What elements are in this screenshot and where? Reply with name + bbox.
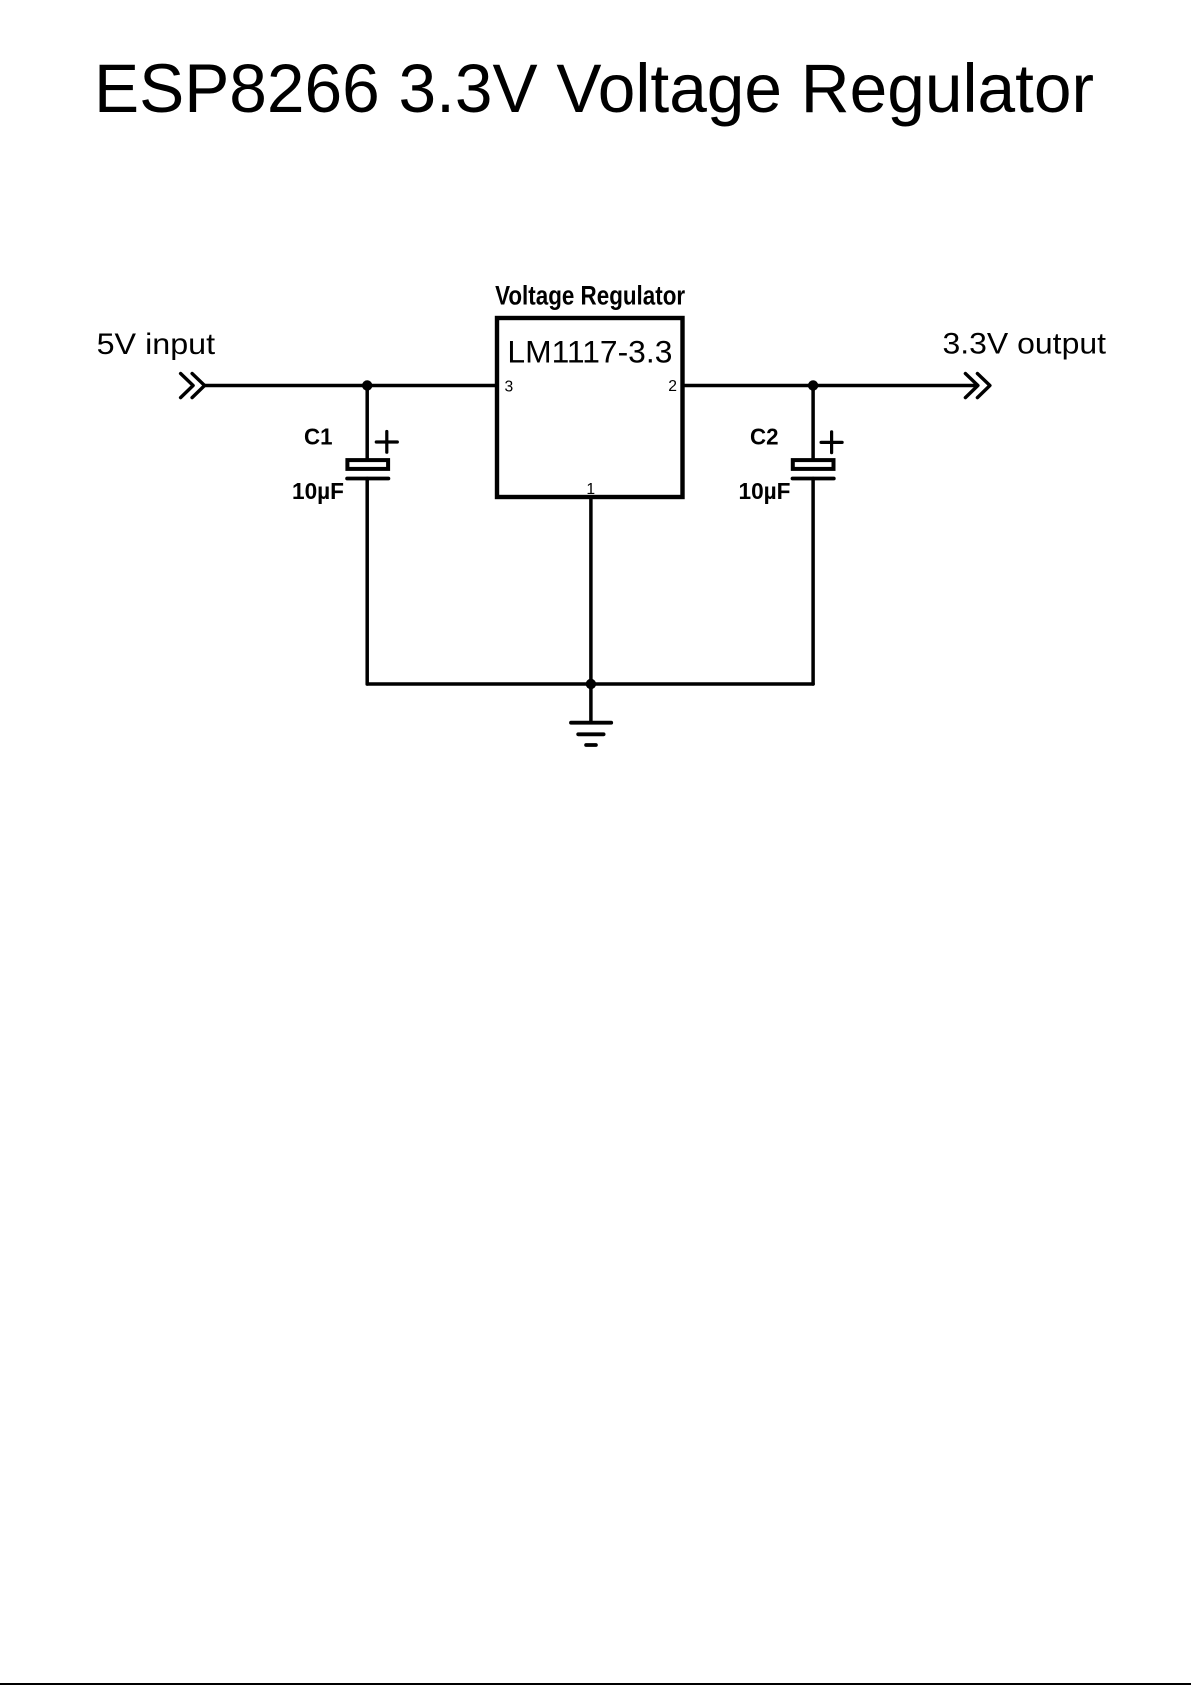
svg-text:3.3V output: 3.3V output [943,328,1107,361]
svg-text:10µF: 10µF [292,478,344,504]
svg-text:Voltage Regulator: Voltage Regulator [495,281,685,311]
svg-text:1: 1 [586,481,595,498]
svg-text:ESP8266 3.3V Voltage Regulator: ESP8266 3.3V Voltage Regulator [94,51,1094,127]
svg-text:10µF: 10µF [739,478,791,504]
svg-text:2: 2 [668,378,677,395]
svg-text:C1: C1 [304,424,333,450]
svg-text:C2: C2 [750,424,779,450]
svg-text:3: 3 [505,379,514,396]
svg-text:LM1117-3.3: LM1117-3.3 [507,334,672,370]
svg-text:5V input: 5V input [97,328,216,361]
